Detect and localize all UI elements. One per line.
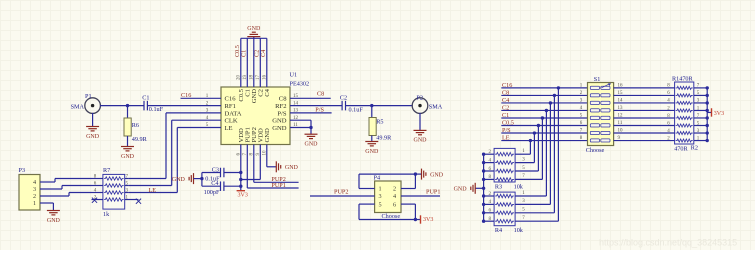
svg-text:3V3: 3V3 [423, 217, 433, 223]
svg-text:GND: GND [305, 142, 319, 148]
svg-text:P1: P1 [85, 93, 92, 100]
svg-text:R3: R3 [495, 183, 502, 190]
svg-text:GND: GND [247, 26, 261, 32]
svg-text:DATA: DATA [225, 110, 242, 117]
svg-text:GND: GND [414, 138, 428, 144]
svg-text:LE: LE [225, 125, 233, 132]
svg-text:P/S: P/S [277, 110, 286, 117]
svg-text:10k: 10k [514, 183, 524, 190]
svg-text:P4: P4 [374, 175, 381, 182]
svg-text:C2: C2 [340, 94, 347, 101]
svg-text:100pF: 100pF [204, 189, 220, 196]
svg-text:P2: P2 [416, 94, 423, 101]
svg-text:GND: GND [121, 154, 135, 160]
svg-text:U1: U1 [290, 72, 298, 79]
svg-text:S1: S1 [594, 76, 601, 83]
svg-text:R2: R2 [691, 145, 698, 152]
svg-text:C4: C4 [264, 88, 271, 96]
svg-text:LE: LE [149, 187, 157, 194]
svg-text:GND: GND [272, 125, 287, 132]
svg-text:2: 2 [33, 193, 36, 200]
svg-text:SMA: SMA [71, 103, 85, 110]
svg-text:GND: GND [47, 218, 61, 224]
svg-text:C3: C3 [212, 167, 219, 174]
svg-text:3V3: 3V3 [238, 193, 248, 199]
svg-text:PUP1: PUP1 [271, 182, 285, 189]
svg-text:C8: C8 [317, 90, 324, 97]
svg-text:1k: 1k [103, 211, 110, 218]
svg-text:1: 1 [378, 186, 381, 193]
svg-text:R6: R6 [132, 122, 139, 129]
svg-text:Choose: Choose [382, 213, 401, 220]
svg-text:PUP2: PUP2 [334, 189, 348, 196]
svg-text:C1: C1 [241, 50, 248, 57]
svg-text:SMA: SMA [429, 103, 443, 110]
svg-text:RF1: RF1 [225, 103, 236, 110]
svg-text:P3: P3 [19, 167, 26, 174]
svg-text:C1: C1 [142, 95, 149, 102]
svg-text:R1470R: R1470R [672, 75, 694, 82]
svg-text:C4: C4 [211, 180, 218, 187]
svg-text:49.9R: 49.9R [376, 134, 392, 141]
svg-text:2: 2 [393, 186, 396, 193]
svg-text:R5: R5 [376, 119, 383, 126]
svg-text:4: 4 [33, 179, 36, 186]
svg-text:Choose: Choose [586, 147, 605, 154]
svg-text:470R: 470R [674, 146, 688, 153]
svg-text:R7: R7 [103, 167, 110, 174]
svg-text:1: 1 [33, 200, 36, 207]
svg-text:C8: C8 [279, 96, 287, 103]
svg-text:GND: GND [272, 118, 287, 125]
svg-text:R4: R4 [495, 227, 502, 234]
svg-text:C4: C4 [260, 50, 267, 57]
svg-text:0.1uF: 0.1uF [349, 106, 364, 113]
svg-text:3V3: 3V3 [714, 111, 724, 117]
svg-text:6: 6 [393, 201, 396, 208]
svg-text:4: 4 [393, 193, 396, 200]
svg-text:RF2: RF2 [275, 103, 286, 110]
svg-text:PUP1: PUP1 [426, 189, 440, 196]
svg-text:C16: C16 [225, 96, 237, 103]
svg-text:49.9R: 49.9R [132, 136, 148, 143]
svg-text:3: 3 [33, 186, 36, 193]
svg-text:PE4302: PE4302 [290, 81, 310, 88]
svg-text:GND: GND [86, 134, 100, 140]
svg-text:GND: GND [285, 165, 299, 171]
svg-text:C16: C16 [181, 92, 191, 99]
svg-text:5: 5 [378, 201, 381, 208]
svg-text:0.1uF: 0.1uF [149, 106, 164, 113]
svg-text:GND: GND [172, 177, 186, 183]
svg-text:3: 3 [378, 193, 381, 200]
svg-text:https://blog.csdn.net/qq_38245: https://blog.csdn.net/qq_38245315 [599, 238, 737, 248]
svg-text:P/S: P/S [315, 107, 324, 114]
svg-text:GND: GND [264, 128, 271, 143]
svg-text:10k: 10k [514, 227, 524, 234]
svg-text:CLK: CLK [225, 118, 238, 125]
svg-text:GND: GND [365, 149, 379, 155]
svg-text:GND: GND [454, 187, 468, 193]
svg-text:GND: GND [430, 172, 444, 178]
